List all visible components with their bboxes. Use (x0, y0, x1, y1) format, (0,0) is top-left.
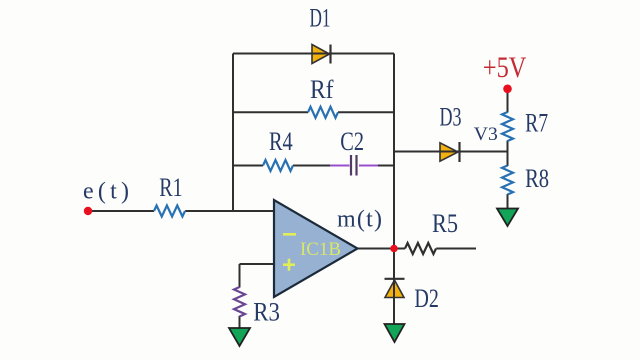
svg-text:D3: D3 (440, 103, 462, 132)
node e(t) input terminal (84, 207, 92, 215)
svg-text:+5V: +5V (483, 51, 527, 84)
op-amp non-inverting pin mark (283, 259, 295, 271)
wire node to R5 (394, 248, 476, 250)
resistor R8 (502, 166, 513, 195)
wire node down through D2 to ground (393, 249, 395, 325)
svg-text:m(t): m(t) (337, 207, 382, 233)
resistor R5 (405, 243, 436, 254)
op-amp inverting pin mark (283, 233, 296, 236)
wire non-inverting input to R3 (240, 264, 275, 328)
wire Rf branch (233, 111, 394, 113)
svg-text:V3: V3 (474, 125, 498, 145)
node +5V terminal (503, 85, 512, 94)
svg-text:R3: R3 (253, 298, 280, 327)
svg-text:Rf: Rf (310, 75, 334, 104)
resistor R4 (263, 160, 293, 171)
diode D2 (385, 279, 405, 298)
resistor Rf (308, 107, 338, 118)
svg-text:R7: R7 (525, 109, 548, 138)
wire branch to D3 and node V3 (394, 151, 508, 153)
svg-text:R8: R8 (525, 164, 549, 193)
resistor R1 (154, 206, 185, 217)
svg-text:R4: R4 (269, 127, 293, 156)
svg-text:e(t): e(t) (83, 179, 129, 205)
op-amp U1 IC1B (274, 200, 358, 297)
ground under D2 (385, 324, 405, 342)
diode D3 (440, 142, 460, 162)
svg-text:D1: D1 (310, 3, 331, 32)
svg-text:R5: R5 (432, 209, 458, 238)
resistor R7 (502, 112, 513, 141)
wire op-amp output to node m(t) (358, 248, 395, 250)
svg-text:C2: C2 (340, 127, 364, 156)
ground under R8 (497, 209, 518, 227)
svg-text:R1: R1 (159, 173, 182, 202)
resistor R3 (234, 287, 245, 317)
wire R4-C2 branch (233, 165, 394, 167)
wire top branch through D1 (233, 53, 394, 55)
wire left feedback rail (232, 54, 234, 212)
wire +5V rail (507, 89, 509, 209)
svg-text:D2: D2 (414, 284, 439, 313)
ground under R3 (229, 328, 250, 346)
wire right feedback rail (393, 54, 395, 249)
svg-text:IC1B: IC1B (300, 239, 341, 260)
diode D1 (312, 45, 331, 64)
capacitor C2 (330, 155, 378, 176)
wire input e(t) to inverting input (88, 210, 275, 212)
node m(t) output junction (390, 245, 398, 253)
